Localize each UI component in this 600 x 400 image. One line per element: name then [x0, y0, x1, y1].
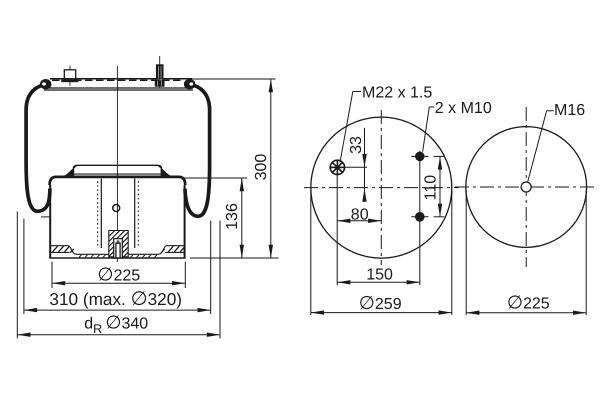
svg-text:80: 80 — [351, 206, 369, 223]
air stud shank — [156, 65, 163, 79]
bellows outer contour left — [26, 84, 50, 211]
piston foot left — [50, 246, 76, 255]
dim 136 line — [241, 178, 243, 258]
piston top edge — [50, 177, 186, 185]
bottom view circle — [466, 127, 587, 248]
dim 340 line — [17, 334, 220, 336]
vent hole — [113, 205, 120, 212]
svg-text:310 (max. ∅320): 310 (max. ∅320) — [49, 288, 182, 310]
dim 225R line — [466, 312, 586, 314]
bolt B1 flange nut — [61, 80, 78, 83]
air stud nut below plate — [155, 81, 164, 86]
dim 33 line — [364, 128, 366, 201]
top plate dashed inner line — [52, 79, 184, 81]
central hatched boss — [109, 231, 128, 257]
dim 225R ext lines — [465, 190, 467, 315]
piston walls — [49, 185, 51, 258]
dim bottom reference line — [190, 257, 279, 259]
M22 symbol — [330, 160, 344, 174]
svg-text:∅259: ∅259 — [359, 292, 402, 313]
bellows lobe lip left — [41, 216, 50, 218]
M22 leader — [340, 92, 361, 163]
svg-text:110: 110 — [423, 175, 440, 201]
piston bottom line across slot — [113, 257, 123, 259]
horizontal center line — [304, 187, 459, 189]
arrowheads right view — [466, 311, 586, 315]
arrowheads middle view — [311, 154, 452, 315]
M22 vertical ext line — [336, 173, 338, 285]
bellows outer contour right — [185, 84, 210, 216]
dim 225 line — [52, 282, 185, 284]
center line — [116, 66, 118, 262]
dim 80 line — [337, 220, 381, 222]
right bead — [184, 79, 195, 89]
svg-text:M22 x 1.5: M22 x 1.5 — [362, 85, 432, 102]
top plate bottom lines — [44, 87, 193, 89]
piston bottom line — [49, 257, 185, 259]
dim 310 line — [24, 309, 211, 311]
dim 136 top reference line — [182, 177, 248, 179]
svg-text:2 x M10: 2 x M10 — [435, 100, 492, 117]
piston inner tube dotted lines — [97, 181, 99, 247]
M16 circle — [521, 182, 531, 192]
M10 bolt bottom — [415, 212, 425, 222]
top view circle — [311, 117, 452, 258]
M16 leader — [528, 111, 554, 182]
horizontal center line — [455, 186, 597, 188]
svg-text:150: 150 — [366, 267, 393, 284]
M22 horizontal ref line — [330, 166, 367, 168]
boss blind hole — [114, 239, 123, 258]
air stud center line — [159, 56, 161, 88]
svg-text:300: 300 — [253, 154, 270, 181]
dim 259 line — [311, 312, 452, 314]
M10 vertical line — [419, 151, 421, 286]
vertical center line — [525, 107, 527, 267]
boss thread stud — [116, 243, 120, 257]
dim 340 ext lines — [16, 212, 18, 339]
piston bottom band — [77, 253, 159, 255]
dim 225 ext lines — [51, 262, 53, 289]
dim 110 line — [439, 156, 441, 216]
dim 150 line — [337, 281, 420, 283]
dim 310 ext lines — [23, 219, 25, 315]
piston foot right — [158, 246, 184, 255]
bumper bevel right — [161, 167, 174, 176]
bumper plate top — [73, 165, 161, 168]
bumper bevel left — [61, 167, 74, 176]
dim 300 line — [270, 79, 272, 258]
arrowheads left view — [17, 79, 273, 337]
dim 300 top reference line — [192, 78, 276, 80]
M10 bolt top — [415, 152, 425, 162]
bolt B1 center line — [69, 66, 71, 86]
left bead — [40, 79, 51, 89]
dim 259 ext lines — [310, 190, 312, 315]
M10 leader — [423, 107, 435, 152]
bolt B1 head — [64, 70, 75, 79]
bumper plate bottom line — [74, 173, 162, 175]
svg-text:∅225: ∅225 — [97, 264, 140, 285]
vertical center line — [380, 110, 382, 265]
piston inner tube lines — [100, 179, 102, 249]
top plate top edge — [50, 78, 192, 80]
svg-text:33: 33 — [348, 136, 365, 154]
svg-text:136: 136 — [224, 203, 241, 230]
svg-text:M16: M16 — [554, 102, 585, 119]
svg-text:∅225: ∅225 — [507, 291, 550, 312]
